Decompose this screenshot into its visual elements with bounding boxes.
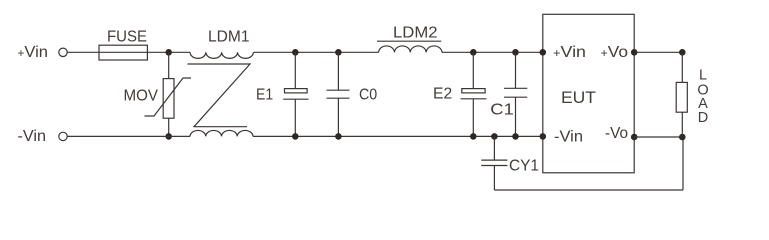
svg-text:-Vin: -Vin (18, 128, 47, 145)
wire: CY1 return bottom run (494, 189, 683, 191)
pin junction: EUT -Vo (631, 134, 638, 141)
EUT block (543, 14, 634, 173)
pin junction: EUT +Vo (631, 49, 638, 56)
svg-text:+Vo: +Vo (601, 44, 629, 61)
label LOAD (697, 68, 708, 127)
junction: E1 bottom (292, 133, 299, 140)
svg-text:-Vo: -Vo (605, 125, 628, 142)
svg-text:EUT: EUT (561, 88, 596, 107)
junction: E2 bottom (470, 133, 477, 140)
wire: CY1 return riser to -Vo node (682, 137, 684, 190)
junction: C0 bottom (335, 133, 342, 140)
svg-text:LDM2: LDM2 (393, 24, 438, 41)
wire: EUT -Vo to LOAD (634, 136, 682, 138)
junction: MOV bottom on -Vin rail (165, 133, 172, 140)
inductor LDM2 winding (379, 46, 442, 52)
svg-text:C0: C0 (359, 86, 377, 103)
svg-text:D: D (698, 110, 708, 126)
wire: top rail LDM1 to LDM2 (253, 51, 378, 53)
terminal -Vin (59, 132, 67, 140)
svg-text:+Vin: +Vin (18, 44, 49, 61)
svg-text:E1: E1 (256, 86, 273, 103)
svg-text:+Vin: +Vin (553, 44, 586, 61)
varistor MOV (145, 52, 192, 136)
fuse FUSE (99, 45, 147, 60)
svg-text:L: L (699, 68, 707, 84)
wire: -Vin terminal to LDM1 bottom winding (67, 135, 190, 137)
capacitor E1 (electrolytic) (283, 52, 308, 136)
junction: LOAD bottom (679, 134, 686, 141)
svg-text:FUSE: FUSE (107, 29, 147, 46)
junction: E1 top (292, 49, 299, 56)
pin junction: EUT -Vin (540, 133, 547, 140)
wire: +Vin terminal to FUSE (67, 51, 99, 53)
load resistor LOAD (676, 52, 687, 137)
junction: C1 top (512, 49, 519, 56)
svg-text:LDM1: LDM1 (208, 29, 250, 46)
junction: LOAD top (679, 49, 686, 56)
svg-text:MOV: MOV (124, 88, 159, 105)
junction: CY1 top (491, 133, 498, 140)
inductor LDM2 core bar (377, 40, 441, 42)
choke LDM1 top winding (190, 52, 253, 58)
pin junction: EUT +Vin (540, 49, 547, 56)
junction: FUSE / MOV top (165, 49, 172, 56)
capacitor CY1 (481, 136, 507, 190)
capacitor C0 (327, 52, 350, 136)
wire: FUSE to LDM1 (top rail) (147, 51, 190, 53)
svg-text:-Vin: -Vin (554, 128, 583, 145)
wire: EUT +Vo to LOAD (634, 51, 682, 53)
junction: C0 top (335, 49, 342, 56)
svg-text:E2: E2 (433, 86, 452, 103)
capacitor E2 (electrolytic) (461, 52, 487, 136)
wire: LDM2 to EUT +Vin (442, 51, 543, 53)
junction: C1 bottom (512, 133, 519, 140)
choke LDM1 bottom winding (190, 130, 253, 136)
svg-text:C1: C1 (490, 101, 514, 118)
terminal +Vin (59, 48, 67, 56)
capacitor C1 (504, 52, 527, 136)
wire: bottom rail LDM1 to EUT -Vin (253, 135, 543, 137)
choke LDM1 core (Z) (188, 64, 251, 127)
svg-text:CY1: CY1 (509, 157, 539, 174)
junction: E2 top (470, 49, 477, 56)
